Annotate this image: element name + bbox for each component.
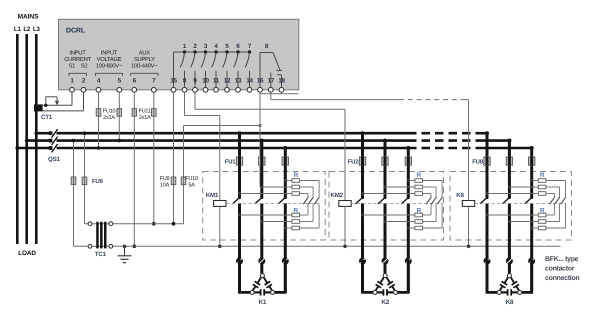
wire resistor upper 1 to phase (step 2) (408, 180, 415, 182)
svg-text:TC1: TC1 (95, 251, 107, 258)
wire resistor lower 1 to phase (step 2) (363, 214, 415, 216)
svg-text:K2: K2 (381, 299, 389, 306)
wire aux loop 3 (step 3) (546, 180, 566, 182)
wire resistor lower 1 to phase (step 1) (240, 214, 292, 216)
capacitor bank K8 delta (487, 260, 499, 292)
mechanical link KM1 (226, 202, 320, 204)
wire resistor upper 3 to phase (step 3) (487, 193, 538, 195)
svg-text:100-440V~: 100-440V~ (131, 63, 158, 70)
disconnector QS1 pole 3 (49, 146, 53, 150)
discharge resistor R upper 1 (step 1) (292, 179, 300, 183)
aux contact blade 2 (step 3) (555, 197, 560, 204)
wire aux loop 3 (step 2) (423, 180, 443, 182)
wire bus bar 1 (from L3) (36, 132, 49, 135)
discharge resistor R lower 1 (step 3) (538, 213, 546, 217)
aux contact blade 1 (step 3) (550, 197, 555, 204)
svg-text:17: 17 (267, 77, 274, 84)
capacitor bottom K2 (375, 291, 383, 293)
wire aux loop 2 (step 3) (546, 186, 560, 188)
mechanical link K8 (475, 202, 567, 204)
svg-text:5A: 5A (188, 182, 195, 188)
bracket aux supply (131, 73, 158, 76)
svg-text:connection: connection (545, 274, 579, 282)
wire resistor lower 1 to phase (step 3) (487, 214, 538, 216)
discharge resistor R upper 3 (step 1) (292, 192, 300, 196)
wire coil K8 to return (468, 206, 470, 246)
wire resistor lower 2 to phase (step 1) (262, 221, 292, 223)
junction node bus tap (485, 131, 489, 135)
aux contact blade 2 (step 2) (431, 197, 436, 204)
junction node bus tap (283, 146, 287, 150)
svg-text:R: R (293, 172, 298, 179)
node delta vertices K8 (507, 274, 511, 278)
wire branch phase 1 of step 2 (361, 133, 364, 197)
wire terminal 4 to bus 3 (98, 92, 100, 148)
discharge resistor R lower 3 (step 3) (538, 226, 546, 230)
discharge resistor R upper 2 (step 2) (415, 185, 423, 189)
svg-text:contactor: contactor (545, 266, 575, 273)
controller DCRL box (59, 19, 299, 90)
wire aux loop 1 (step 1) (300, 193, 309, 195)
aux contact blade 1 (step 2) (426, 197, 431, 204)
wire phase L2 vertical (25, 34, 28, 244)
wire aux loop 1 (step 2) (423, 193, 432, 195)
junction node bus tap (507, 139, 511, 143)
fuse FU8 pole 1 (484, 157, 490, 165)
capacitor left side K8 (504, 277, 508, 283)
fuse FU1 pole 1 (236, 157, 242, 165)
wire aux loop 1 (step 3) (546, 193, 555, 195)
wire CT1 S1 to terminal 1 (43, 104, 72, 106)
wire CT1 S2 to terminal 2 (43, 110, 84, 112)
wire TC1 primary a (from bus 2) (73, 141, 75, 247)
discharge resistor R lower 2 (step 2) (415, 220, 423, 224)
node delta vertices K2 (383, 274, 387, 278)
wire resistor upper 3 to phase (step 2) (363, 193, 415, 195)
svg-text:L1: L1 (14, 26, 22, 33)
wire terminal 15 to TC1 secondary (via FU9 10A) (173, 92, 175, 224)
wire aux loop 3 (step 1) (300, 180, 320, 182)
wire phase L1 vertical (16, 34, 19, 244)
svg-text:FU9: FU9 (92, 178, 103, 185)
svg-text:LOAD: LOAD (18, 250, 36, 257)
svg-text:FU2: FU2 (348, 158, 359, 165)
svg-text:FU1: FU1 (225, 158, 236, 165)
svg-text:FU10: FU10 (185, 176, 198, 182)
contactor coil KM1 (214, 201, 226, 207)
svg-text:CURRENT: CURRENT (64, 56, 91, 63)
wire terminal 5 to bus 2 (118, 92, 120, 140)
wire resistor upper 3 to phase (step 1) (240, 193, 292, 195)
aux contact blade 3 (step 1) (314, 197, 319, 204)
svg-text:10A: 10A (160, 182, 170, 188)
junction node bus tap (383, 139, 387, 143)
current transformer CT1 (34, 104, 43, 111)
discharge resistor R upper 3 (step 3) (538, 192, 546, 196)
wire control return line (74, 245, 561, 247)
wire bus bar 3 (from L1) (17, 147, 49, 150)
svg-text:2x1A: 2x1A (103, 115, 115, 121)
capacitor left side K1 (257, 277, 261, 283)
aux contact blade 3 (step 2) (437, 197, 442, 204)
wire branch phase 1 of step 1 (238, 133, 241, 197)
svg-text:R: R (416, 172, 421, 179)
svg-text:K8: K8 (506, 299, 514, 306)
wire resistor upper 2 to phase (step 2) (385, 186, 415, 188)
wire branch phase 1 of step 3 (486, 133, 489, 197)
svg-text:15: 15 (170, 77, 177, 84)
svg-text:S2: S2 (81, 63, 88, 70)
svg-text:SUPPLY: SUPPLY (134, 56, 155, 63)
wire coil KM1 to return (219, 206, 221, 246)
discharge resistor R upper 1 (step 3) (538, 179, 546, 183)
wire terminal 16 down to discharge network (259, 92, 261, 187)
svg-text:100-600V~: 100-600V~ (96, 63, 123, 70)
svg-text:13: 13 (235, 77, 242, 84)
svg-text:FU8: FU8 (472, 158, 483, 165)
svg-text:2x1A: 2x1A (139, 115, 151, 121)
svg-text:L3: L3 (33, 26, 41, 33)
CT1 polarity arrow (44, 104, 47, 107)
fuse FU9 10A (171, 177, 176, 185)
wire branch phase 2 of step 1 (260, 141, 263, 198)
junction node bus tap (530, 146, 534, 150)
junction node bus 2 / mains (25, 139, 29, 143)
capacitor bottom K8 (499, 291, 507, 293)
svg-text:K1: K1 (259, 299, 267, 306)
junction node bus tap (238, 131, 242, 135)
wire coil KM2 to return (344, 206, 346, 246)
junction node bus tap (361, 131, 365, 135)
wire TC1 secondary top (85, 223, 184, 225)
wire bus bar 2 (from L2) (27, 139, 50, 142)
wire relay common bus (terminal 15) (174, 51, 250, 53)
capacitor bank K1 delta (240, 260, 253, 292)
contactor K8 main contact pole 2 (508, 196, 511, 199)
capacitor right side K1 (264, 277, 268, 283)
svg-text:BFK... type: BFK... type (545, 256, 579, 263)
bracket input current (69, 73, 87, 76)
capacitor bottom K1 (252, 291, 260, 293)
capacitor bank K1 connection circles (236, 258, 243, 265)
svg-text:INPUT: INPUT (101, 51, 118, 57)
capacitor right side K8 (511, 277, 515, 283)
wire resistor lower 2 to phase (step 3) (509, 221, 538, 223)
contactor K8 main contact pole 1 (486, 196, 489, 199)
wire resistor upper 1 to phase (step 3) (532, 180, 539, 182)
fuse FU10 5A (181, 177, 186, 185)
capacitor left side K2 (380, 277, 384, 283)
discharge resistor R lower 3 (step 2) (415, 226, 423, 230)
contactor KM2 main contact pole 2 (384, 196, 387, 199)
capacitor right side K2 (387, 277, 391, 283)
svg-text:VOLTAGE: VOLTAGE (97, 56, 122, 63)
transformer TC1 (96, 222, 99, 249)
wire branch phase 3 of step 2 (407, 148, 410, 197)
fuse FU2 pole 2 (382, 157, 388, 165)
svg-text:K8: K8 (456, 192, 464, 199)
contactor module dashed box KM2 (329, 172, 444, 241)
wire TC1 primary b (from bus 1) (84, 133, 86, 224)
wire TC1 secondary via FU10 5A to terminal 16 branch (183, 126, 185, 224)
disconnector QS1 pole 1 (49, 131, 53, 135)
contactor KM1 main contact pole 3 (284, 196, 287, 199)
aux contact blade 3 (step 3) (561, 197, 566, 204)
junction node bus tap (406, 146, 410, 150)
aux contact blade 2 (step 1) (308, 197, 313, 204)
ground symbol (123, 245, 127, 249)
svg-text:18: 18 (278, 77, 285, 84)
wire resistor lower 3 to phase (step 2) (408, 227, 415, 229)
svg-text:CT1: CT1 (41, 114, 53, 121)
svg-text:R: R (540, 172, 545, 179)
junction node bus 1 / mains (34, 131, 38, 135)
svg-text:16: 16 (257, 77, 264, 84)
wire resistor upper 2 to phase (step 3) (509, 186, 538, 188)
fuse FU2 pole 1 (359, 157, 365, 165)
svg-text:FU10: FU10 (103, 109, 116, 115)
mechanical link KM2 (351, 202, 443, 204)
contactor coil KM2 (339, 201, 351, 207)
wire terminal 9 to contactor KM2 coil (194, 92, 196, 109)
node delta vertices K1 (260, 274, 264, 278)
contactor KM2 main contact pole 3 (407, 196, 410, 199)
svg-text:KM1: KM1 (206, 192, 219, 199)
junction node bus tap (260, 139, 264, 143)
contactor K8 main contact pole 3 (530, 196, 533, 199)
discharge resistor R lower 1 (step 2) (415, 213, 423, 217)
discharge resistor R lower 2 (step 1) (292, 220, 300, 224)
svg-text:12: 12 (224, 77, 231, 84)
junction node bus 3 / mains (15, 146, 19, 150)
fuse FU2 pole 3 (405, 157, 411, 165)
svg-text:QS1: QS1 (48, 156, 60, 163)
fuse FU1 pole 3 (282, 157, 288, 165)
discharge resistor R upper 3 (step 2) (415, 192, 423, 196)
fuse FU10 2x1A pair (96, 109, 101, 117)
fuse FU8 pole 2 (506, 157, 512, 165)
fuse FU11 2x1A pair (132, 109, 137, 117)
svg-text:KM2: KM2 (331, 192, 344, 199)
svg-text:L2: L2 (23, 26, 31, 33)
wire branch phase 3 of step 3 (530, 148, 533, 197)
wire terminal 6 to return line (133, 92, 135, 246)
capacitor bank K8 connection circles (484, 258, 491, 265)
disconnector QS1 pole 2 (49, 139, 53, 143)
wire branch phase 2 of step 2 (384, 141, 387, 198)
svg-text:INPUT: INPUT (69, 51, 86, 57)
discharge resistor R upper 2 (step 1) (292, 185, 300, 189)
bracket input voltage (96, 73, 123, 76)
wire resistor lower 3 to phase (step 3) (532, 227, 539, 229)
wire aux loop 2 (step 2) (423, 186, 437, 188)
contactor module dashed box K8 (450, 172, 572, 241)
wire terminal 8 to contactor KM1 coil (184, 92, 186, 115)
contactor module dashed box KM1 (203, 172, 326, 241)
wire resistor upper 2 to phase (step 1) (262, 186, 292, 188)
wire aux loop 2 (step 1) (300, 186, 314, 188)
wire terminal 7 to TC1 secondary (153, 92, 155, 224)
contactor coil K8 (462, 201, 474, 207)
svg-text:MAINS: MAINS (18, 14, 39, 21)
discharge resistor R upper 2 (step 3) (538, 185, 546, 189)
svg-text:FU11: FU11 (138, 109, 150, 115)
capacitor bank K2 connection circles (359, 258, 366, 265)
discharge resistor R lower 2 (step 3) (538, 220, 546, 224)
wire resistor upper 1 to phase (step 1) (285, 180, 292, 182)
svg-text:14: 14 (246, 77, 253, 84)
discharge resistor R lower 3 (step 1) (292, 226, 300, 230)
aux contact blade 1 (step 1) (303, 197, 308, 204)
svg-text:10: 10 (202, 77, 209, 84)
discharge resistor R upper 1 (step 2) (415, 179, 423, 183)
fuse FU1 pole 2 (259, 157, 265, 165)
wire link terminals 16-18 (259, 92, 261, 94)
fuse FU9 pair (71, 177, 76, 185)
svg-text:FU9: FU9 (160, 176, 170, 182)
wire resistor lower 2 to phase (step 2) (385, 221, 415, 223)
fuse FU8 pole 3 (529, 157, 535, 165)
discharge resistor R lower 1 (step 1) (292, 213, 300, 217)
svg-text:S1: S1 (69, 63, 76, 70)
svg-text:11: 11 (213, 77, 220, 84)
wire resistor lower 3 to phase (step 1) (285, 227, 292, 229)
wire branch phase 3 of step 1 (284, 148, 287, 197)
contactor KM2 main contact pole 1 (361, 196, 364, 199)
svg-text:AUX: AUX (139, 51, 151, 57)
wire phase L3 vertical (35, 34, 38, 244)
contactor KM1 main contact pole 1 (238, 196, 241, 199)
wire terminal 17 to contactor K8 coil (270, 92, 272, 99)
capacitor bank K2 delta (363, 260, 376, 292)
contactor KM1 main contact pole 2 (260, 196, 263, 199)
wire branch phase 2 of step 3 (508, 141, 511, 198)
svg-text:DCRL: DCRL (66, 28, 86, 35)
